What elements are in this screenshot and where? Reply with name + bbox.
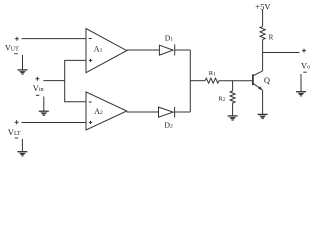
ground (below Q emitter): [258, 114, 268, 118]
diode D2: [159, 107, 175, 118]
svg-text:Q: Q: [264, 75, 270, 85]
label D1: [165, 33, 174, 42]
diode D1: [159, 44, 174, 55]
wire emitter down to ground: [262, 90, 264, 114]
wire D2 to bus corner: [175, 111, 191, 113]
op-amp A2: [86, 92, 127, 130]
wire D1 to bus corner: [175, 49, 191, 51]
ground (below Vin): [39, 97, 49, 116]
node Vin plus terminal: [35, 77, 39, 81]
node VLT minus terminal: [15, 137, 18, 139]
label A2: [94, 107, 103, 116]
wire A2 output to D2: [127, 111, 159, 113]
wire Vin junction to both op-amp inputs: [65, 60, 86, 101]
label VLT: [8, 127, 21, 137]
ground (below VLT): [17, 139, 27, 156]
wire collector node to output Vo: [263, 52, 300, 54]
wire junction down to R2: [232, 81, 234, 91]
label R: [269, 34, 274, 41]
node Vin minus terminal: [36, 94, 39, 96]
wire R2 to ground: [232, 103, 234, 116]
resistor R: [260, 26, 265, 39]
node VUT plus terminal: [15, 37, 19, 41]
wire VUT to A1 inverting input: [22, 38, 87, 40]
svg-text:R: R: [269, 34, 274, 41]
label +5V: [255, 1, 271, 11]
label R2: [218, 95, 225, 103]
op-amp A1: [86, 29, 127, 73]
label A1: [94, 44, 103, 53]
label Vo: [301, 60, 310, 70]
label D2: [164, 121, 173, 130]
wire +5V supply down to R: [262, 9, 264, 26]
wire Vin to junction: [43, 80, 64, 82]
label VUT: [5, 44, 19, 53]
label R1: [209, 70, 216, 78]
ground (below Vo): [296, 74, 306, 96]
label Q: [264, 75, 270, 85]
svg-text:+5V: +5V: [255, 1, 271, 11]
ground (below R2): [228, 116, 238, 120]
node Vo plus terminal: [302, 49, 306, 53]
wire R to collector node: [262, 40, 264, 53]
node VLT plus terminal: [15, 120, 19, 124]
resistor R2: [230, 91, 235, 103]
wire VLT to A2 non-inverting input: [22, 122, 87, 124]
transistor Q: [253, 71, 263, 90]
ground (below VUT): [18, 55, 28, 74]
wire bus to R1: [190, 80, 205, 82]
wire bus vertical (diode OR node): [189, 50, 191, 112]
wire A1 output to D1: [127, 49, 160, 51]
wire collector up to R junction: [262, 53, 264, 71]
resistor R1: [205, 78, 219, 83]
node Vo minus terminal: [303, 71, 306, 73]
wire R1 to base of Q: [219, 80, 253, 82]
node VUT minus terminal: [14, 53, 17, 55]
label Vin: [33, 83, 44, 93]
